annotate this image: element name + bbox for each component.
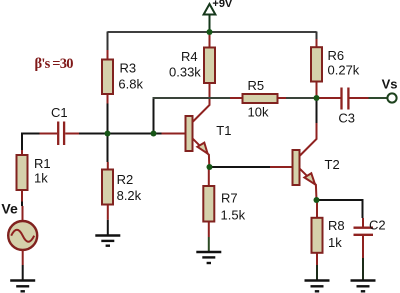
- ground for R2: [95, 236, 120, 246]
- pin wires R1: [21, 150, 23, 202]
- transistor T1: [162, 83, 232, 167]
- resistor R5: [230, 78, 286, 120]
- body R4: [204, 48, 215, 84]
- pin wires R2: [107, 162, 109, 220]
- svg-text:1.5k: 1.5k: [221, 208, 246, 223]
- svg-text:R1: R1: [34, 156, 51, 171]
- pin wires R4: [209, 33, 211, 105]
- svg-text:Vs: Vs: [382, 77, 398, 92]
- svg-text:T2: T2: [325, 157, 340, 172]
- collector pin T1: [193, 83, 210, 122]
- wire base bus C1 to T1: [22, 133, 162, 135]
- pin wires C3: [318, 97, 369, 99]
- resistor R1: [17, 150, 51, 202]
- wire Ve to ground: [22, 265, 24, 280]
- svg-text:+9V: +9V: [212, 0, 233, 10]
- pin wires R8: [316, 202, 318, 265]
- top pin Ve: [22, 206, 24, 220]
- ground for Ve: [10, 281, 35, 292]
- svg-text:β's =30: β's =30: [35, 56, 74, 72]
- plates C2: [354, 228, 374, 235]
- pin wires C1: [40, 133, 80, 135]
- collector pin T2: [300, 123, 317, 156]
- pin wires R6: [316, 39, 318, 98]
- svg-text:R4: R4: [181, 49, 198, 64]
- terminal circle Vs: [387, 93, 396, 102]
- pin wires R7: [208, 169, 210, 237]
- wire C2 to ground: [362, 258, 364, 280]
- body R3: [102, 60, 113, 95]
- resistor R7: [203, 169, 245, 237]
- resistor R6: [311, 39, 360, 98]
- wire R3 top drop: [107, 32, 109, 51]
- svg-text:1k: 1k: [34, 171, 48, 186]
- pin wires R5: [230, 97, 286, 99]
- wire emitter bus T1 to T2 base: [210, 166, 271, 168]
- body R5: [243, 94, 278, 103]
- base pin T1: [162, 133, 186, 135]
- body R8: [312, 218, 323, 253]
- wire node to C2: [317, 200, 363, 218]
- base pin T2: [270, 166, 293, 168]
- terminal Vs: [369, 77, 398, 103]
- wire R6 top drop: [316, 32, 318, 40]
- bottom pin Ve: [22, 250, 24, 265]
- wire R1 corner drop: [21, 133, 23, 207]
- svg-text:R6: R6: [328, 48, 345, 63]
- svg-text:8.2k: 8.2k: [117, 188, 142, 203]
- wire R5 left bus: [153, 97, 231, 99]
- capacitor C3: [318, 88, 369, 126]
- svg-text:1k: 1k: [328, 235, 342, 250]
- body R2: [102, 170, 113, 205]
- transistor T2: [270, 123, 340, 200]
- svg-text:C3: C3: [338, 111, 355, 126]
- wire R2 drop: [107, 134, 109, 163]
- junction node T2 emitter: [314, 197, 320, 203]
- power +9V symbol: [204, 0, 233, 32]
- resistor R4: [169, 33, 215, 105]
- svg-text:6.8k: 6.8k: [118, 77, 143, 92]
- pin wires R3: [107, 50, 109, 104]
- svg-text:R5: R5: [248, 78, 265, 93]
- svg-text:C1: C1: [51, 105, 68, 120]
- junction node R6/C3/T2 collector: [314, 95, 320, 101]
- emitter arrow T1: [197, 143, 207, 154]
- plates C1: [58, 122, 64, 146]
- resistor R8: [312, 202, 345, 265]
- wire R8 to ground: [316, 265, 318, 280]
- svg-text:R7: R7: [221, 191, 238, 206]
- emitter arrow T2: [304, 173, 315, 184]
- svg-text:R2: R2: [117, 172, 134, 187]
- wire T2 collector drop: [316, 98, 318, 123]
- wire R5 right to node: [286, 97, 317, 99]
- plates C3: [342, 88, 349, 110]
- emitter pin T1: [193, 138, 210, 167]
- ground for C2: [351, 281, 376, 292]
- capacitor C2: [354, 218, 386, 259]
- svg-text:Ve: Ve: [1, 201, 18, 217]
- resistor R3: [102, 50, 143, 134]
- body R6: [311, 47, 322, 81]
- ground for R7: [196, 252, 221, 263]
- body R1: [17, 155, 28, 190]
- base bar T2: [293, 150, 300, 185]
- svg-text:T1: T1: [216, 123, 231, 138]
- junction node at +9V rail: [207, 29, 213, 35]
- wire +9V top rail: [108, 31, 317, 33]
- wire R3 bottom to base node: [107, 104, 109, 134]
- junction node T1 emitter: [207, 164, 213, 170]
- capacitor C1: [40, 105, 80, 145]
- wire R5 bus over collector crossing: [203, 97, 216, 99]
- junction node base R3/R2: [105, 131, 111, 137]
- wire feedback vertical drop: [153, 98, 155, 134]
- junction node base feedback: [151, 131, 157, 137]
- wire R7 to ground: [208, 237, 210, 251]
- wire R2 to ground: [107, 220, 109, 235]
- pin wires C2: [362, 218, 364, 258]
- source Ve: [1, 201, 37, 266]
- svg-text:0.27k: 0.27k: [328, 63, 360, 78]
- svg-text:C2: C2: [369, 218, 386, 233]
- body circle Ve: [8, 221, 37, 250]
- svg-text:R3: R3: [120, 61, 137, 76]
- emitter pin T2: [300, 168, 317, 200]
- sine wave Ve: [11, 230, 34, 242]
- body R7: [203, 186, 214, 222]
- terminal pin Vs: [369, 97, 388, 99]
- ground for R8: [305, 281, 330, 292]
- base bar T1: [186, 116, 193, 151]
- resistor R2: [102, 162, 142, 220]
- svg-text:0.33k: 0.33k: [169, 65, 201, 80]
- svg-text:10k: 10k: [248, 105, 269, 120]
- svg-text:R8: R8: [328, 218, 345, 233]
